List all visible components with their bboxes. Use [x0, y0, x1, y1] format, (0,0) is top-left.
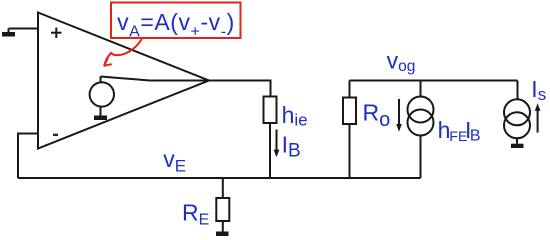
svg-text:Is: Is — [531, 76, 546, 104]
voltage source VA — [90, 77, 114, 107]
current arrow hFE IB — [396, 99, 402, 132]
wire — [349, 81, 351, 98]
wire node vog — [350, 80, 518, 82]
svg-text:Ro: Ro — [363, 100, 391, 131]
wire — [420, 81, 422, 97]
current source hFE IB — [408, 97, 434, 136]
wire — [18, 134, 38, 179]
wire — [516, 138, 518, 143]
wire — [9, 28, 39, 30]
current source Is — [504, 99, 530, 138]
wire — [349, 124, 351, 178]
svg-text:B: B — [470, 127, 481, 144]
plus input label — [51, 28, 62, 39]
svg-text:vE: vE — [163, 146, 186, 176]
ground — [511, 144, 524, 148]
current arrow Is — [535, 103, 541, 132]
wire — [269, 123, 271, 178]
svg-text:IB: IB — [282, 131, 301, 161]
resistor hie — [264, 97, 277, 124]
resistor Ro — [343, 98, 356, 125]
wire node vE — [18, 177, 421, 179]
wire — [517, 81, 519, 100]
svg-text:RE: RE — [182, 200, 209, 229]
wire — [209, 81, 271, 97]
ground — [94, 107, 107, 120]
minus input label — [53, 134, 58, 136]
wire — [420, 136, 422, 179]
svg-text:vog: vog — [387, 48, 416, 76]
ground — [216, 221, 229, 236]
wire — [101, 77, 210, 81]
resistor RE — [216, 198, 229, 221]
current arrow IB — [274, 130, 280, 158]
annotation arrow — [104, 40, 141, 66]
svg-text:hie: hie — [282, 102, 308, 130]
wire — [222, 178, 224, 198]
ground — [2, 29, 15, 37]
svg-text:vA=A(v+-v-): vA=A(v+-v-) — [117, 9, 235, 41]
annotation box — [111, 3, 241, 39]
op-amp U1 — [38, 13, 209, 149]
